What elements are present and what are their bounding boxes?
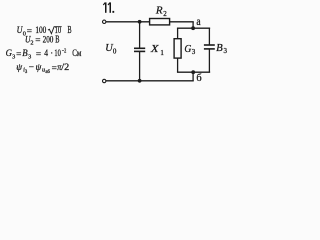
svg-text:R: R <box>155 6 163 17</box>
svg-text:ψ: ψ <box>16 63 22 73</box>
wire: corner down to node a <box>192 22 194 28</box>
svg-text:В: В <box>67 25 71 36</box>
svg-text:10: 10 <box>54 49 61 59</box>
wire: riser from bottom wire to node b <box>192 72 194 81</box>
svg-text:X: X <box>150 44 159 55</box>
wire: top terminal to resistor R2 <box>106 21 150 23</box>
problem number 11. <box>103 2 114 12</box>
svg-text:=: = <box>52 64 57 74</box>
wire: X1 branch upper segment <box>139 22 141 49</box>
susceptance B3 plates <box>204 44 215 46</box>
svg-text:аб: аб <box>45 70 50 75</box>
wire: bottom terminal to riser <box>106 80 194 82</box>
svg-text:4: 4 <box>44 49 48 59</box>
svg-text:a: a <box>196 16 200 28</box>
svg-text:B: B <box>216 43 223 54</box>
svg-text:−2: −2 <box>62 47 67 54</box>
wire: B3 branch top lead <box>208 28 210 45</box>
bottom input terminal <box>103 79 106 82</box>
svg-text:3: 3 <box>224 47 228 55</box>
svg-text:200: 200 <box>43 35 54 45</box>
svg-text:=: = <box>36 50 41 60</box>
node: junction of X1 branch on top wire <box>138 20 142 24</box>
svg-text:−: − <box>29 63 34 73</box>
resistor R2 <box>150 19 170 25</box>
wire: G3 branch bottom lead <box>177 58 179 72</box>
svg-text:/2: /2 <box>61 63 69 73</box>
svg-text:1: 1 <box>160 49 164 57</box>
svg-text:В: В <box>55 34 59 45</box>
svg-text:0: 0 <box>113 48 117 56</box>
svg-text:См: См <box>72 49 81 59</box>
node: junction of X1 branch on bottom wire <box>138 79 142 83</box>
given equation line 2: U2 = 200 V <box>25 34 60 46</box>
svg-text:2: 2 <box>30 40 33 47</box>
svg-text:3: 3 <box>12 53 15 60</box>
given equation line 4: psi_i3 - psi_uab = pi/2 <box>16 63 69 75</box>
svg-text:б: б <box>196 73 201 84</box>
svg-text:3: 3 <box>28 53 31 60</box>
wire: G3 branch top lead <box>177 28 179 39</box>
wire: B3 branch bottom lead <box>208 49 210 72</box>
top input terminal <box>103 20 106 23</box>
svg-text:2: 2 <box>163 10 167 18</box>
node b junction dot <box>191 70 195 74</box>
wire: X1 branch lower segment <box>139 51 141 80</box>
wire: resistor to corner above node a <box>170 21 194 23</box>
svg-text:3: 3 <box>25 70 28 75</box>
svg-text:=: = <box>16 50 21 60</box>
node a junction dot <box>191 26 195 30</box>
capacitor X1 plates <box>134 47 145 49</box>
given equation line 1: U0 = 100*sqrt(10) V <box>17 25 72 37</box>
svg-text:3: 3 <box>192 48 196 56</box>
svg-text:ψ: ψ <box>36 63 42 73</box>
wire: lower bus of parallel G3,B3 <box>177 71 210 73</box>
svg-text:=: = <box>35 36 40 46</box>
conductance G3 box <box>174 39 181 58</box>
wire: upper bus of parallel G3,B3 <box>177 27 210 29</box>
svg-text:G: G <box>184 44 191 55</box>
given equation line 3: G3 = B3 = 4e-2 Sm <box>6 47 82 60</box>
svg-text:·: · <box>50 49 53 59</box>
